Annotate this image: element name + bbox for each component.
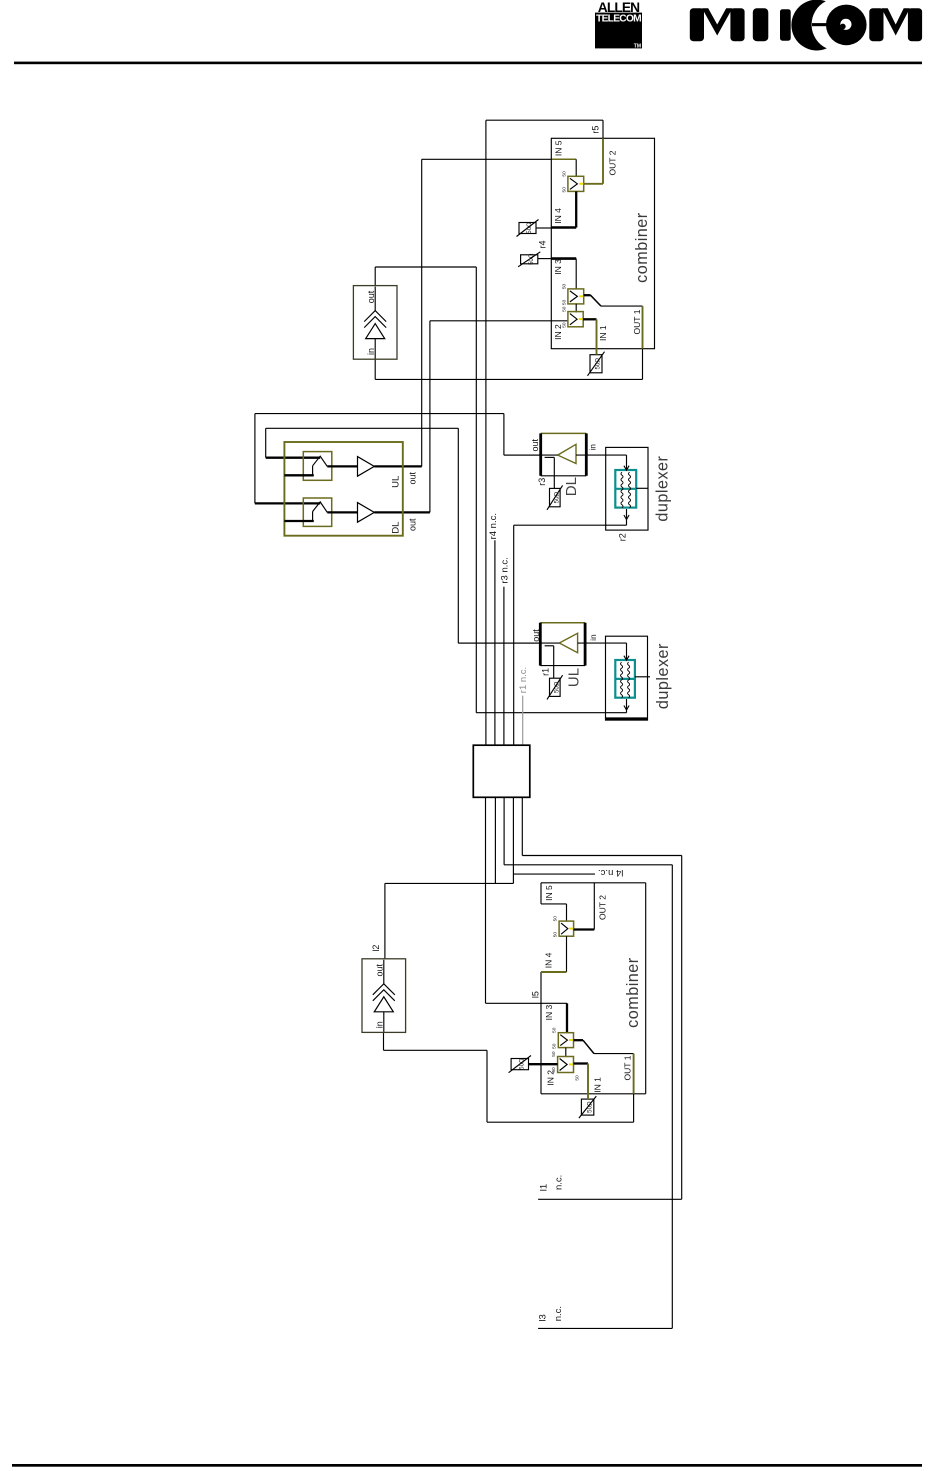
svg-text:DL: DL [391, 522, 402, 534]
svg-text:50Ω: 50Ω [519, 1058, 526, 1070]
svg-text:out: out [531, 629, 541, 642]
svg-text:50: 50 [551, 1067, 557, 1073]
svg-text:out: out [407, 518, 417, 531]
svg-text:IN 5: IN 5 [554, 140, 564, 156]
svg-text:r3 n.c.: r3 n.c. [500, 557, 511, 583]
svg-text:50Ω: 50Ω [554, 681, 561, 693]
svg-text:50: 50 [562, 284, 568, 290]
svg-text:out: out [530, 438, 540, 451]
svg-text:in: in [588, 634, 598, 641]
svg-text:duplexer: duplexer [654, 455, 672, 521]
svg-text:TELECOM: TELECOM [596, 14, 641, 25]
svg-text:50: 50 [552, 1043, 558, 1049]
svg-text:OUT 2: OUT 2 [607, 150, 617, 175]
svg-text:50Ω: 50Ω [586, 1101, 593, 1113]
svg-text:l1: l1 [538, 1184, 549, 1191]
svg-text:50: 50 [562, 171, 568, 177]
svg-text:l5: l5 [531, 991, 541, 998]
svg-text:IN 4: IN 4 [553, 208, 563, 224]
svg-text:50: 50 [562, 322, 568, 328]
svg-text:r4 n.c.: r4 n.c. [488, 513, 499, 539]
svg-text:50Ω: 50Ω [526, 222, 533, 234]
svg-text:IN 4: IN 4 [544, 952, 554, 968]
svg-text:50: 50 [562, 306, 568, 312]
svg-text:50Ω: 50Ω [554, 491, 561, 503]
svg-text:r5: r5 [591, 126, 601, 134]
svg-text:50: 50 [553, 932, 559, 938]
svg-text:TM: TM [634, 44, 641, 50]
svg-text:l2: l2 [371, 945, 381, 952]
svg-text:r2: r2 [617, 533, 627, 541]
svg-text:r1: r1 [540, 668, 550, 676]
svg-text:OUT 2: OUT 2 [598, 895, 608, 920]
svg-text:OUT 1: OUT 1 [623, 1055, 633, 1080]
svg-text:50: 50 [562, 187, 568, 193]
svg-text:ALLEN: ALLEN [598, 0, 640, 15]
svg-text:l3: l3 [538, 1314, 549, 1321]
svg-text:r3: r3 [537, 478, 547, 486]
svg-text:UL: UL [566, 668, 583, 687]
svg-text:in: in [375, 1021, 385, 1028]
svg-text:duplexer: duplexer [654, 643, 672, 709]
svg-text:in: in [366, 348, 376, 355]
svg-text:IN 2: IN 2 [553, 324, 563, 340]
svg-text:50: 50 [551, 1051, 557, 1057]
svg-text:UL: UL [391, 476, 402, 488]
svg-text:OUT 1: OUT 1 [632, 309, 642, 334]
svg-text:r1 n.c.: r1 n.c. [518, 667, 529, 693]
svg-text:combiner: combiner [633, 212, 651, 283]
svg-text:DL: DL [563, 477, 580, 496]
svg-text:50: 50 [562, 299, 568, 305]
svg-text:out: out [407, 472, 417, 485]
svg-text:combiner: combiner [624, 957, 642, 1028]
svg-text:50Ω: 50Ω [595, 358, 602, 370]
svg-text:IN 3: IN 3 [553, 259, 563, 275]
svg-text:50: 50 [553, 916, 559, 922]
svg-text:IN 1: IN 1 [592, 1077, 602, 1093]
svg-text:IN 1: IN 1 [598, 325, 608, 341]
svg-text:n.c.: n.c. [553, 1175, 564, 1190]
svg-text:50Ω: 50Ω [528, 253, 535, 265]
svg-text:out: out [366, 290, 376, 303]
svg-text:out: out [375, 963, 385, 976]
svg-text:50: 50 [575, 1075, 581, 1081]
svg-text:in: in [588, 444, 598, 451]
svg-text:l4 n.c.: l4 n.c. [598, 867, 623, 878]
svg-text:n.c.: n.c. [553, 1306, 564, 1321]
svg-text:50: 50 [552, 1027, 558, 1033]
svg-text:r4: r4 [538, 240, 548, 248]
svg-text:IN 5: IN 5 [544, 885, 554, 901]
svg-text:IN 3: IN 3 [544, 1005, 554, 1021]
